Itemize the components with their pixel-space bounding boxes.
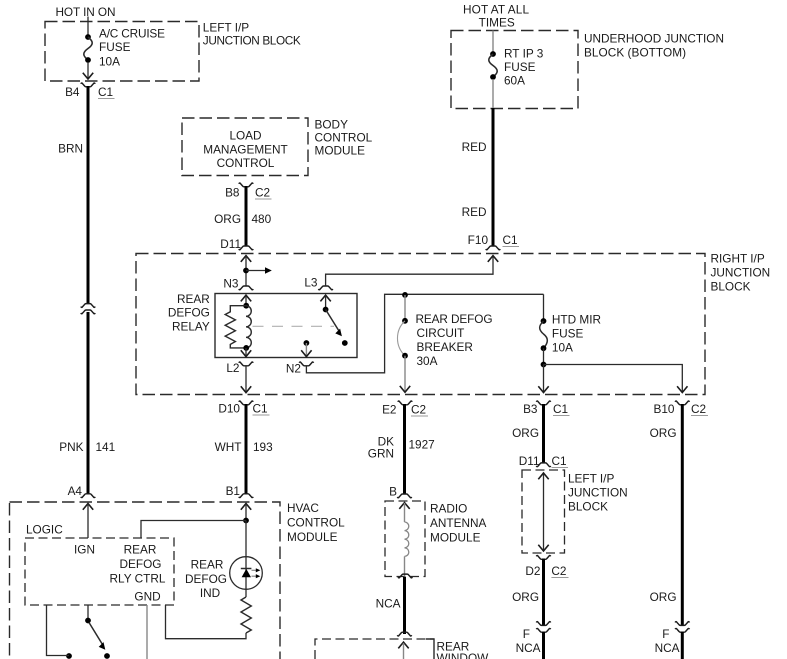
wire break F NCA (B10) [655, 622, 690, 659]
svg-text:N3: N3 [223, 277, 239, 291]
wire into fuse [87, 17, 89, 36]
antenna coil [398, 503, 412, 578]
svg-text:RIGHT I/P: RIGHT I/P [711, 251, 765, 265]
radio antenna module box [385, 501, 425, 577]
wire DK GRN 1927 [368, 404, 435, 494]
label BODY CONTROL MODULE [315, 118, 373, 158]
svg-text:CONTROL: CONTROL [287, 516, 345, 530]
resistor under LED [241, 597, 251, 633]
svg-text:REAR: REAR [191, 558, 224, 572]
svg-text:UNDERHOOD JUNCTION: UNDERHOOD JUNCTION [584, 32, 724, 46]
wire from D11 with branch arrow [241, 256, 272, 286]
svg-text:JUNCTION BLOCK: JUNCTION BLOCK [203, 34, 301, 48]
connector F10 C1 [468, 233, 519, 250]
node HOT IN ON [56, 5, 116, 19]
label REAR DEFOG RELAY [168, 292, 210, 333]
svg-text:REAR DEFOG: REAR DEFOG [416, 312, 493, 326]
svg-text:B10: B10 [654, 402, 675, 416]
switch in HVAC [47, 605, 110, 659]
svg-text:LOAD: LOAD [229, 128, 261, 142]
svg-text:B3: B3 [523, 402, 538, 416]
svg-text:ORG: ORG [512, 426, 539, 440]
entry arrow [398, 642, 408, 659]
svg-text:C2: C2 [255, 186, 270, 200]
circuit breaker REAR DEFOG 30A [397, 295, 492, 392]
svg-text:A4: A4 [68, 484, 83, 498]
svg-text:B1: B1 [226, 484, 240, 498]
terminal N3 [223, 277, 253, 291]
node and branch to logic [141, 518, 249, 538]
terminal L3 and wire to F10 [304, 256, 498, 290]
wire into fuse [492, 31, 494, 53]
label REAR DEFOG IND [185, 558, 227, 600]
svg-text:REAR: REAR [177, 292, 210, 306]
svg-text:NCA: NCA [376, 597, 401, 611]
svg-text:JUNCTION: JUNCTION [568, 486, 628, 500]
svg-text:C1: C1 [503, 233, 518, 247]
svg-text:F: F [523, 627, 530, 641]
wire to box edge with down arrow [83, 62, 93, 79]
connector E2 C2 [382, 401, 428, 416]
svg-text:DEFOG: DEFOG [168, 306, 210, 320]
svg-text:TIMES: TIMES [479, 16, 515, 30]
svg-text:IGN: IGN [74, 543, 95, 557]
svg-text:WINDOW: WINDOW [437, 651, 490, 659]
label REAR WINDOW [437, 640, 490, 659]
svg-text:C1: C1 [552, 454, 567, 468]
wire to box edge [492, 79, 494, 109]
svg-text:F: F [662, 627, 669, 641]
svg-text:RLY CTRL: RLY CTRL [110, 572, 166, 586]
label REAR DEFOG RLY CTRL [110, 543, 166, 586]
svg-text:D2: D2 [525, 564, 540, 578]
label RIGHT I/P JUNCTION BLOCK [711, 251, 771, 293]
svg-text:ORG: ORG [650, 590, 677, 604]
wire to LED [245, 521, 247, 598]
svg-text:IND: IND [200, 586, 220, 600]
relay coil with parallel resistor [225, 295, 251, 357]
label RADIO ANTENNA MODULE [430, 501, 487, 544]
svg-text:60A: 60A [504, 73, 525, 87]
svg-text:10A: 10A [99, 55, 120, 69]
svg-text:FUSE: FUSE [504, 60, 536, 74]
node HOT AT ALL TIMES [463, 3, 529, 30]
svg-text:ANTENNA: ANTENNA [430, 516, 487, 530]
terminal N2 and routing wire [286, 292, 544, 376]
label LEFT I/P JUNCTION BLOCK [568, 472, 628, 514]
svg-text:HTD MIR: HTD MIR [552, 312, 601, 326]
svg-text:HVAC: HVAC [287, 501, 319, 515]
wire ORG (B3) [512, 404, 543, 463]
svg-text:MANAGEMENT: MANAGEMENT [203, 142, 288, 156]
svg-text:N2: N2 [286, 362, 301, 376]
fuse HTD MIR 10A [540, 294, 601, 367]
svg-text:BLOCK (BOTTOM): BLOCK (BOTTOM) [584, 46, 686, 60]
wire ORG (B10) [650, 404, 683, 625]
svg-text:REAR: REAR [124, 543, 157, 557]
svg-text:ORG: ORG [512, 590, 539, 604]
svg-text:E2: E2 [382, 403, 396, 417]
rear window defogger box [315, 639, 434, 659]
svg-text:FUSE: FUSE [552, 326, 584, 340]
svg-text:ORG: ORG [214, 212, 241, 226]
svg-text:BRN: BRN [58, 142, 83, 156]
connector D11 [220, 237, 253, 251]
svg-text:L3: L3 [304, 276, 318, 290]
svg-text:LEFT I/P: LEFT I/P [568, 472, 614, 486]
connector B10 C2 [654, 401, 709, 416]
svg-text:A/C CRUISE: A/C CRUISE [99, 26, 165, 40]
terminal L2 [226, 361, 253, 393]
svg-text:JUNCTION: JUNCTION [711, 265, 771, 279]
connector into rear window defogger [397, 632, 411, 636]
svg-text:141: 141 [96, 440, 116, 454]
wire to B3 exit [538, 365, 548, 393]
svg-text:30A: 30A [417, 354, 438, 368]
svg-text:MODULE: MODULE [287, 530, 338, 544]
svg-text:DEFOG: DEFOG [120, 557, 162, 571]
svg-text:B: B [389, 485, 397, 499]
svg-text:BODY: BODY [315, 118, 349, 132]
pass-through arrow [538, 473, 548, 552]
body control module: load management control box [182, 118, 308, 176]
svg-text:RED: RED [462, 205, 487, 219]
pin B1 entry arrow [241, 504, 251, 521]
left I/P junction block (fuse box) [45, 22, 199, 82]
svg-text:B8: B8 [225, 186, 240, 200]
svg-text:WHT: WHT [215, 440, 242, 454]
label IGN [74, 543, 95, 557]
svg-text:NCA: NCA [516, 641, 541, 655]
svg-text:MODULE: MODULE [315, 144, 366, 158]
svg-text:C2: C2 [691, 402, 706, 416]
fuse RT IP 3 60A [489, 47, 544, 88]
svg-text:CONTROL: CONTROL [315, 131, 373, 145]
underhood junction block (bottom) box [451, 31, 578, 109]
relay mechanical link (dashed) [253, 325, 335, 327]
svg-text:GND: GND [134, 590, 160, 604]
svg-text:1927: 1927 [409, 438, 435, 452]
svg-text:F10: F10 [468, 233, 489, 247]
rear defog relay box [215, 294, 357, 358]
connector B [389, 485, 412, 499]
wire resistor to GND side [166, 605, 247, 639]
svg-text:NCA: NCA [655, 641, 680, 655]
svg-text:HOT IN ON: HOT IN ON [56, 5, 116, 19]
wire RED [462, 108, 493, 246]
svg-text:C2: C2 [411, 403, 426, 417]
svg-text:LEFT I/P: LEFT I/P [203, 20, 249, 34]
svg-text:RT IP 3: RT IP 3 [504, 47, 544, 61]
left I/P junction block (small box) [522, 470, 565, 553]
svg-text:L2: L2 [226, 361, 239, 375]
connector B4 C1 [65, 83, 114, 99]
LED rear defog indicator [230, 557, 263, 590]
svg-text:CONTROL: CONTROL [217, 156, 275, 170]
svg-text:RED: RED [462, 140, 487, 154]
right I/P junction block box [136, 254, 705, 395]
wire PNK 141 [59, 312, 115, 494]
svg-text:HOT AT ALL: HOT AT ALL [463, 3, 529, 17]
HVAC control module box [10, 502, 281, 659]
wire ORG 480 [214, 186, 271, 246]
wire ORG down [512, 559, 543, 626]
svg-text:B4: B4 [65, 85, 80, 99]
relay switch [301, 295, 348, 357]
label UNDERHOOD JUNCTION BLOCK (BOTTOM) [584, 32, 724, 60]
svg-text:C2: C2 [551, 564, 566, 578]
fuse A/C CRUISE 10A [84, 26, 165, 68]
svg-text:BLOCK: BLOCK [568, 500, 608, 514]
svg-text:D10: D10 [218, 402, 240, 416]
svg-text:PNK: PNK [59, 440, 83, 454]
label LEFT I/P JUNCTION BLOCK [203, 20, 301, 47]
svg-text:BLOCK: BLOCK [711, 279, 751, 293]
svg-text:D11: D11 [220, 237, 241, 251]
svg-text:RELAY: RELAY [172, 319, 210, 333]
wire BRN [58, 86, 88, 304]
svg-text:BREAKER: BREAKER [417, 340, 473, 354]
svg-text:C1: C1 [98, 85, 113, 99]
svg-text:DEFOG: DEFOG [185, 572, 227, 586]
connector B3 C1 [523, 401, 569, 416]
logic box [25, 522, 174, 605]
svg-text:LOGIC: LOGIC [26, 522, 63, 536]
connector B8 C2 [225, 183, 271, 199]
wire break F NCA [516, 622, 551, 659]
connector B1 [226, 484, 254, 498]
wire WHT 193 [215, 404, 273, 494]
connector D10 C1 [218, 401, 269, 415]
wire to B10 exit [544, 365, 688, 393]
svg-text:FUSE: FUSE [99, 40, 131, 54]
pin A4 entry arrow and wire to IGN [83, 504, 93, 539]
svg-text:10A: 10A [552, 340, 573, 354]
connector A4 [68, 484, 96, 498]
label GND [134, 590, 160, 604]
svg-text:193: 193 [253, 440, 273, 454]
svg-text:480: 480 [252, 212, 272, 226]
svg-text:C1: C1 [553, 402, 568, 416]
svg-text:ORG: ORG [650, 426, 677, 440]
svg-text:MODULE: MODULE [430, 530, 481, 544]
label HVAC CONTROL MODULE [287, 501, 345, 544]
GND wire down [146, 605, 148, 659]
svg-text:C1: C1 [253, 402, 268, 416]
wire break symbol [81, 304, 95, 314]
svg-text:RADIO: RADIO [430, 501, 467, 515]
wire NCA [376, 577, 405, 634]
svg-text:CIRCUIT: CIRCUIT [417, 326, 465, 340]
connector D11 C1 (left I/P) [519, 454, 568, 468]
svg-text:GRN: GRN [368, 447, 394, 461]
connector D2 C2 [525, 556, 568, 578]
